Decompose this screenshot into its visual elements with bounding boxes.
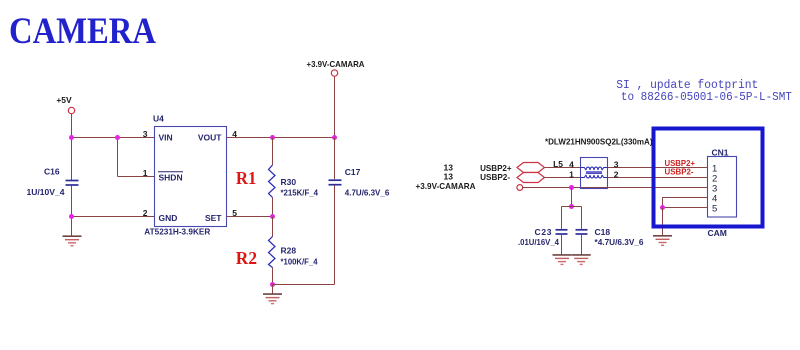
- ground below R28: [263, 294, 282, 304]
- svg-text:*DLW21HN900SQ2L(330mA): *DLW21HN900SQ2L(330mA): [545, 138, 653, 147]
- ground below CN1: [653, 236, 672, 246]
- wire vertical to SHDN: [117, 138, 119, 177]
- svg-text:3: 3: [614, 159, 619, 169]
- svg-text:13: 13: [444, 172, 454, 182]
- svg-text:4.7U/6.3V_6: 4.7U/6.3V_6: [345, 187, 390, 197]
- svg-text:USBP2-: USBP2-: [665, 166, 694, 176]
- svg-text:R30: R30: [281, 177, 297, 187]
- ground below C16: [63, 236, 82, 246]
- svg-text:4: 4: [569, 159, 574, 169]
- capacitor C16: [66, 181, 79, 186]
- junction node cap split: [569, 204, 574, 209]
- junction node VOUT/+3.9V: [332, 135, 337, 140]
- svg-text:VIN: VIN: [159, 133, 173, 143]
- wire GND pin: [72, 216, 155, 218]
- svg-text:.01U/16V_4: .01U/16V_4: [518, 237, 559, 247]
- svg-text:+3.9V-CAMARA: +3.9V-CAMARA: [416, 181, 476, 191]
- ground below C23: [553, 255, 572, 265]
- wire +3.9V to CN1 pin3: [523, 187, 708, 189]
- wire CN1 pin4: [663, 198, 708, 208]
- op-amp U4 regulator box: [155, 127, 227, 227]
- wire VOUT net: [227, 137, 335, 139]
- wire USBP2- to choke: [545, 177, 581, 179]
- svg-text:U4: U4: [153, 114, 164, 124]
- svg-text:C18: C18: [595, 227, 611, 237]
- svg-text:R28: R28: [281, 246, 297, 256]
- svg-text:5: 5: [712, 203, 717, 214]
- capacitor C17: [329, 138, 342, 285]
- svg-text:R1: R1: [236, 168, 257, 188]
- svg-text:*4.7U/6.3V_6: *4.7U/6.3V_6: [595, 237, 644, 247]
- junction node R28/ground wire: [270, 282, 275, 287]
- junction node 3.9V/cap branch: [569, 185, 574, 190]
- wire to CAM ground: [662, 208, 664, 236]
- wire cap branch vertical: [571, 188, 573, 207]
- wire +3.9V-CAMARA down to VOUT net: [334, 76, 336, 137]
- svg-text:1: 1: [569, 169, 574, 179]
- svg-text:USBP2-: USBP2-: [480, 172, 510, 182]
- resistor R28: [269, 217, 276, 285]
- junction node +5V/VIN: [69, 135, 74, 140]
- power +5V terminal circle: [68, 107, 74, 113]
- junction node pin4/pin5: [660, 205, 665, 210]
- svg-text:C16: C16: [44, 167, 60, 177]
- svg-text:AT5231H-3.9KER: AT5231H-3.9KER: [144, 227, 210, 237]
- wire choke out pin3: [608, 167, 708, 169]
- wire ground stub under R28: [272, 285, 274, 294]
- svg-text:CAM: CAM: [708, 228, 727, 238]
- svg-text:2: 2: [143, 208, 148, 218]
- svg-text:3: 3: [143, 129, 148, 139]
- power +3.9V-CAMARA terminal circle (right): [517, 185, 523, 191]
- junction node SHDN branch: [115, 135, 120, 140]
- connector CN1 body: [708, 157, 737, 218]
- svg-text:L5: L5: [553, 159, 563, 169]
- svg-text:+3.9V-CAMARA: +3.9V-CAMARA: [307, 59, 365, 69]
- resistor R30: [269, 138, 276, 217]
- svg-text:SHDN: SHDN: [159, 173, 183, 183]
- svg-text:2: 2: [614, 169, 619, 179]
- svg-text:*100K/F_4: *100K/F_4: [281, 256, 318, 266]
- junction node SET/R30/R28: [270, 214, 275, 219]
- wire USBP2+ to choke: [545, 167, 581, 169]
- svg-text:SET: SET: [205, 213, 222, 223]
- svg-text:GND: GND: [159, 213, 178, 223]
- svg-text:to 88266-05001-06-5P-L-SMT: to 88266-05001-06-5P-L-SMT: [621, 91, 792, 104]
- svg-text:1: 1: [143, 168, 148, 178]
- off-page connector USBP2- hexagon: [517, 173, 545, 183]
- common-mode choke L5: [581, 158, 608, 189]
- off-page connector USBP2+ hexagon: [517, 163, 545, 173]
- wire +5V vertical: [71, 114, 73, 181]
- junction node C16/GND: [69, 214, 74, 219]
- power +3.9V-CAMARA terminal circle: [331, 70, 337, 76]
- wire choke out pin2: [608, 177, 708, 179]
- svg-text:CAMERA: CAMERA: [9, 11, 156, 52]
- svg-text:C23: C23: [535, 227, 552, 237]
- svg-text:VOUT: VOUT: [198, 133, 222, 143]
- svg-text:+5V: +5V: [56, 95, 72, 105]
- wire to SHDN pin: [118, 176, 155, 178]
- capacitor C23: [556, 207, 568, 255]
- svg-text:R2: R2: [236, 248, 257, 268]
- wire cap split horizontal: [562, 206, 582, 208]
- svg-text:CN1: CN1: [712, 147, 729, 157]
- svg-text:C17: C17: [345, 167, 361, 177]
- svg-text:*215K/F_4: *215K/F_4: [281, 187, 319, 197]
- capacitor C18: [576, 207, 588, 255]
- wire +5V to VIN: [72, 137, 155, 139]
- junction node VOUT/R30: [270, 135, 275, 140]
- svg-text:1U/10V_4: 1U/10V_4: [27, 187, 65, 197]
- wire CN1 pin5: [663, 207, 708, 209]
- wire R28 bottom to C17 bottom: [273, 284, 335, 286]
- wire C16 bottom to ground: [71, 185, 73, 236]
- ground below C18: [572, 255, 591, 265]
- connector CN1 outer blue frame: [654, 129, 763, 227]
- wire SET to R30/R28: [227, 216, 273, 218]
